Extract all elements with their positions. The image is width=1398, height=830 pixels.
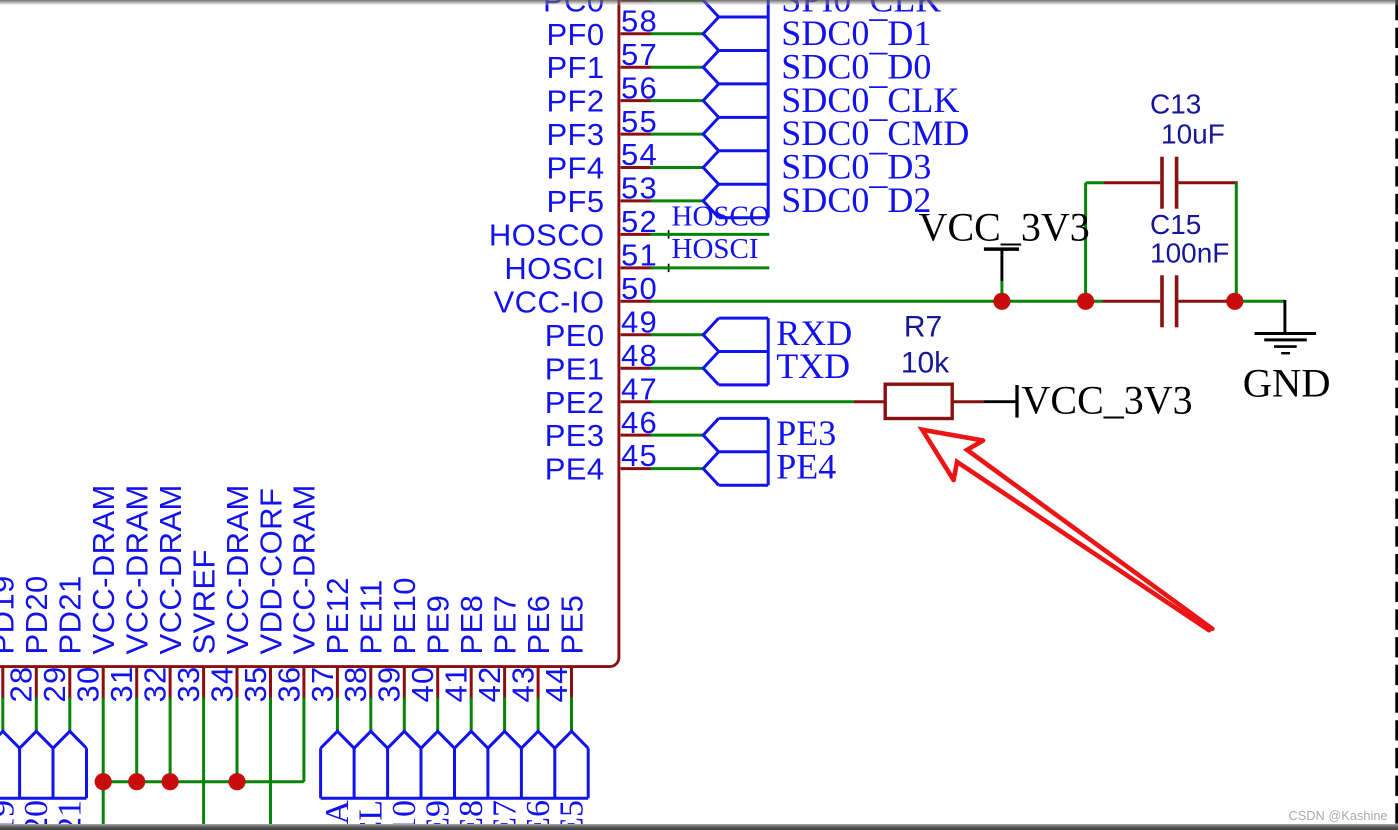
svg-text:TXD: TXD <box>776 346 850 386</box>
svg-text:PE8: PE8 <box>454 595 489 655</box>
svg-text:PE2: PE2 <box>545 385 605 420</box>
svg-text:44: 44 <box>539 665 574 702</box>
svg-text:58: 58 <box>621 3 658 38</box>
svg-text:PD20: PD20 <box>19 575 54 654</box>
svg-text:50: 50 <box>621 271 658 306</box>
svg-text:28: 28 <box>4 665 39 702</box>
svg-text:VCC-DRAM: VCC-DRAM <box>120 484 155 654</box>
svg-text:VCC-DRAM: VCC-DRAM <box>220 484 255 654</box>
svg-text:31: 31 <box>104 665 139 702</box>
svg-text:42: 42 <box>472 665 507 702</box>
svg-text:56: 56 <box>621 70 658 105</box>
svg-text:PF0: PF0 <box>546 17 604 52</box>
svg-text:36: 36 <box>271 665 306 702</box>
svg-text:VDD-CORF: VDD-CORF <box>253 488 288 655</box>
svg-text:100nF: 100nF <box>1150 237 1229 268</box>
svg-text:54: 54 <box>621 137 658 172</box>
svg-text:VCC-IO: VCC-IO <box>494 284 605 319</box>
svg-text:PF2: PF2 <box>546 84 604 119</box>
svg-text:53: 53 <box>621 171 658 206</box>
svg-text:HOSCI: HOSCI <box>504 251 604 286</box>
svg-text:VCC-DRAM: VCC-DRAM <box>86 484 121 654</box>
svg-text:PF1: PF1 <box>546 50 604 85</box>
svg-text:PE1: PE1 <box>545 351 605 386</box>
svg-text:39: 39 <box>372 665 407 702</box>
svg-text:PF4: PF4 <box>546 151 604 186</box>
svg-text:PE7: PE7 <box>487 595 522 655</box>
svg-text:38: 38 <box>338 665 373 702</box>
svg-text:CSDN @Kashine: CSDN @Kashine <box>1289 808 1388 823</box>
svg-text:HOSCI: HOSCI <box>672 233 759 265</box>
svg-text:37: 37 <box>305 665 340 702</box>
svg-text:PE11: PE11 <box>354 579 389 654</box>
svg-text:GND: GND <box>1243 360 1331 405</box>
svg-text:51: 51 <box>621 238 658 273</box>
svg-text:PD21: PD21 <box>53 575 88 654</box>
svg-text:VCC_3V3: VCC_3V3 <box>1022 378 1193 423</box>
svg-text:VCC_3V3: VCC_3V3 <box>919 205 1090 250</box>
svg-text:R7: R7 <box>904 311 942 344</box>
svg-text:47: 47 <box>621 371 658 406</box>
svg-text:55: 55 <box>621 104 658 139</box>
svg-text:PE10: PE10 <box>387 577 422 654</box>
svg-text:PF5: PF5 <box>546 184 604 219</box>
svg-text:57: 57 <box>621 37 658 72</box>
svg-text:29: 29 <box>37 665 72 702</box>
svg-text:PE12: PE12 <box>320 577 355 654</box>
svg-text:PE9: PE9 <box>421 595 456 655</box>
svg-text:PF3: PF3 <box>546 117 604 152</box>
svg-text:PE4: PE4 <box>776 447 836 487</box>
svg-text:43: 43 <box>506 665 541 702</box>
svg-text:PD19: PD19 <box>0 575 21 654</box>
svg-text:PE4: PE4 <box>545 452 605 487</box>
svg-text:52: 52 <box>621 204 658 239</box>
svg-text:PE6: PE6 <box>521 595 556 655</box>
svg-text:46: 46 <box>621 405 658 440</box>
svg-text:PE3: PE3 <box>545 418 605 453</box>
svg-text:10k: 10k <box>901 347 950 380</box>
svg-text:10uF: 10uF <box>1161 119 1225 150</box>
svg-text:41: 41 <box>439 665 474 702</box>
svg-text:C15: C15 <box>1150 209 1201 240</box>
svg-text:HOSCO: HOSCO <box>672 201 770 233</box>
svg-text:SVREF: SVREF <box>186 549 221 654</box>
svg-text:VCC-DRAM: VCC-DRAM <box>153 484 188 654</box>
svg-text:45: 45 <box>621 438 658 473</box>
svg-text:33: 33 <box>171 665 206 702</box>
svg-text:35: 35 <box>238 665 273 702</box>
svg-text:48: 48 <box>621 338 658 373</box>
svg-text:40: 40 <box>405 665 440 702</box>
svg-text:30: 30 <box>71 665 106 702</box>
svg-text:HOSCO: HOSCO <box>489 218 605 253</box>
svg-text:PE0: PE0 <box>545 318 605 353</box>
svg-text:VCC-DRAM: VCC-DRAM <box>287 484 322 654</box>
svg-text:32: 32 <box>138 665 173 702</box>
svg-text:PE5: PE5 <box>554 595 589 655</box>
svg-text:C13: C13 <box>1150 89 1201 120</box>
svg-text:49: 49 <box>621 304 658 339</box>
svg-text:34: 34 <box>204 665 239 702</box>
